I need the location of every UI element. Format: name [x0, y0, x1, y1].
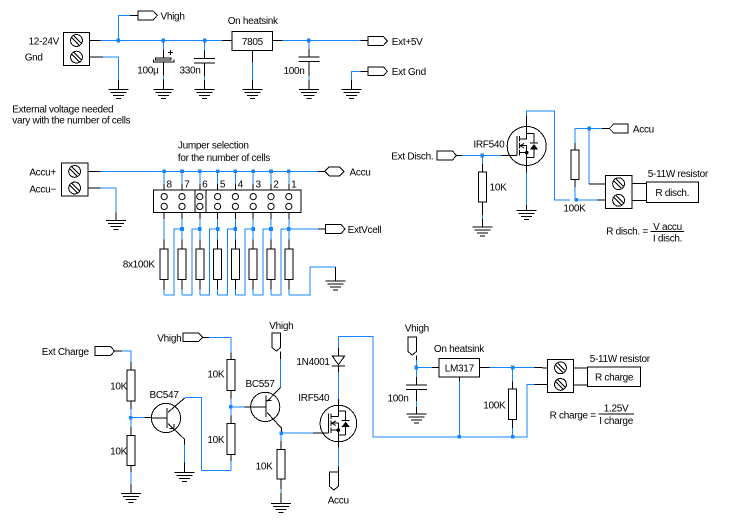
wire C2 top lead	[204, 41, 206, 59]
wire R2d bottom lead	[574, 179, 576, 199]
wire IC2 adj lead	[458, 377, 460, 437]
ground under R7c	[271, 504, 291, 513]
label pin 5	[220, 179, 226, 190]
flag ExtGnd	[368, 67, 387, 76]
node BC557 base	[229, 405, 233, 409]
svg-text:External voltage needed: External voltage needed	[12, 104, 113, 115]
wire R2 top lead	[270, 229, 272, 249]
label 100u	[137, 66, 159, 77]
wire X2 pin2	[88, 188, 116, 220]
svg-text:12-24V: 12-24V	[29, 37, 60, 48]
wire IC1 input stub	[222, 40, 232, 42]
terminal block X3 discharge	[605, 176, 631, 209]
formula R charge	[550, 404, 634, 428]
wire R2d top lead	[574, 129, 576, 150]
node jumper col 8 on Accu rail	[162, 170, 166, 174]
wire R1 top lead	[288, 229, 290, 249]
resistor 100K col 3	[249, 249, 257, 280]
resistor 100K col 1	[285, 249, 293, 280]
jumper pin circles col 3	[250, 194, 256, 210]
resistor 100K col 2	[267, 249, 275, 280]
regulator IC1 7805	[232, 31, 273, 50]
wire X4 to Rcharge pin2	[574, 384, 588, 386]
node Vhigh branch	[117, 39, 121, 43]
svg-text:100n: 100n	[283, 66, 304, 77]
wire R7 top lead	[181, 229, 183, 249]
label 5-11W resistor discharge	[648, 169, 709, 180]
svg-text:I charge: I charge	[599, 416, 633, 427]
svg-text:1N4001: 1N4001	[296, 357, 330, 368]
wire R8 bottom lead	[163, 280, 165, 295]
wire R1 to ground	[289, 267, 336, 295]
wire R3c mid top	[130, 401, 132, 418]
node R-gate tap	[481, 154, 485, 158]
svg-text:10K: 10K	[207, 435, 225, 446]
jumper pin circles col 7	[179, 194, 185, 210]
label 8x100K	[123, 259, 156, 270]
node divider col 2	[269, 227, 273, 231]
wire R8c bottom lead	[512, 420, 514, 437]
flag Vhigh top	[138, 11, 157, 20]
note external voltage line1	[12, 104, 113, 115]
flag Vhigh charge1	[183, 333, 202, 342]
formula R disch	[606, 222, 684, 245]
wire R6 to col 5 node	[200, 229, 218, 295]
svg-text:5-11W resistor: 5-11W resistor	[648, 169, 709, 180]
transistor Q2 BC547	[151, 398, 185, 439]
svg-text:5: 5	[220, 179, 226, 190]
svg-text:Vhigh: Vhigh	[161, 11, 185, 22]
wire IC2 out stub	[480, 367, 490, 369]
svg-text:10K: 10K	[490, 183, 508, 194]
ground under Q2	[174, 473, 194, 482]
ground divider chain	[326, 281, 346, 290]
label Accu-	[29, 184, 56, 195]
wire jumper col 7 bottom stub	[181, 213, 183, 230]
ground under Q1	[517, 210, 537, 219]
wire C4 bottom lead	[415, 389, 417, 414]
wire D1 cathode to Q4 drain	[337, 366, 339, 405]
wire R6 bottom lead	[199, 280, 201, 295]
ground under R4c	[121, 494, 141, 503]
wire jumper col 3 bottom stub	[252, 213, 254, 230]
wire C3 bottom lead	[308, 62, 310, 90]
svg-text:On heatsink: On heatsink	[434, 344, 485, 355]
svg-text:2: 2	[273, 179, 279, 190]
svg-text:100µ: 100µ	[137, 66, 159, 77]
wire C2 bottom lead	[204, 63, 206, 90]
wire R1d top lead	[481, 156, 483, 173]
wire Q1 drain lead	[527, 111, 570, 200]
svg-text:Ext Charge: Ext Charge	[42, 347, 90, 358]
svg-text:Accu: Accu	[350, 167, 371, 178]
wire R4 bottom lead	[234, 280, 236, 295]
wire jumper col 8 top stub	[163, 171, 165, 190]
svg-text:10K: 10K	[256, 462, 274, 473]
ground under R1d	[472, 227, 492, 236]
svg-text:100K: 100K	[563, 203, 586, 214]
capacitor C2 330n	[194, 59, 215, 64]
regulator IC2 LM317	[439, 358, 479, 377]
node divider col 3	[251, 227, 255, 231]
wire R5c bottom	[230, 391, 232, 407]
svg-text:Vhigh: Vhigh	[405, 323, 429, 334]
node divider col 4	[234, 227, 238, 231]
svg-text:Accu−: Accu−	[29, 184, 56, 195]
wire R1d bottom lead	[481, 202, 483, 227]
wire gate rail Q1	[456, 155, 507, 157]
label Vhigh charge1	[157, 333, 181, 344]
label 100K discharge	[563, 203, 586, 214]
node R8c bottom junction	[511, 435, 515, 439]
label ExtVcell	[348, 225, 382, 236]
node divider col 5	[216, 227, 220, 231]
wire jumper col 1 bottom stub	[288, 213, 290, 230]
flag Accu discharge	[609, 124, 628, 133]
wire Vhigh2 to Q3 emitter	[280, 351, 282, 387]
ground under X2	[106, 221, 126, 230]
transistor Q1 IRF540	[507, 127, 546, 166]
svg-text:100n: 100n	[387, 394, 408, 405]
ground under C4	[406, 414, 426, 423]
wire R2 bottom lead	[270, 280, 272, 295]
wire R1 bottom lead	[288, 280, 290, 295]
ground under ExtGnd	[342, 90, 362, 99]
node divider col 6	[198, 227, 202, 231]
svg-text:Ext+5V: Ext+5V	[392, 37, 423, 48]
svg-text:ExtVcell: ExtVcell	[348, 225, 382, 236]
label pin 8	[167, 179, 173, 190]
label Ext Gnd	[392, 67, 426, 78]
svg-text:6: 6	[202, 179, 208, 190]
jumper block housing 5-1	[206, 190, 301, 213]
wire Accu rail stub	[318, 170, 325, 172]
label pin 4	[238, 179, 244, 190]
wire R8c top lead	[512, 368, 514, 390]
wire jumper col 8 bottom stub	[163, 213, 165, 230]
svg-text:V accu: V accu	[653, 222, 682, 233]
node jumper col 1 on Accu rail	[287, 170, 291, 174]
svg-text:Jumper selection: Jumper selection	[178, 141, 249, 152]
svg-text:Accu+: Accu+	[29, 168, 56, 179]
wire jumper col 2 top stub	[270, 171, 272, 190]
wire gate rail Q4	[281, 432, 320, 434]
label 10K discharge	[490, 183, 508, 194]
note jumper selection line1	[178, 141, 249, 152]
wire jumper col 6 top stub	[199, 171, 201, 190]
label BC557	[246, 379, 276, 390]
label pin 1	[291, 179, 297, 190]
diode D1 1N4001	[332, 356, 345, 366]
jumper pin circles col 2	[268, 194, 274, 210]
wire jumper col 5 bottom stub	[217, 213, 219, 230]
label pin 3	[256, 179, 262, 190]
wire R6 top lead	[199, 229, 201, 249]
svg-text:7: 7	[184, 179, 190, 190]
wire +V rail	[100, 40, 360, 42]
svg-text:5-11W resistor: 5-11W resistor	[590, 354, 651, 365]
svg-text:IRF540: IRF540	[473, 140, 505, 151]
svg-text:8x100K: 8x100K	[123, 259, 156, 270]
wire R3 to col 2 node	[253, 229, 271, 295]
wire D1 anode lead	[337, 337, 339, 357]
flag Accu mid	[325, 167, 344, 176]
node adj junction	[458, 435, 462, 439]
svg-text:vary with the number of cells: vary with the number of cells	[12, 115, 130, 126]
svg-text:1.25V: 1.25V	[604, 404, 629, 415]
wire adj rail to X4	[459, 385, 547, 437]
svg-text:10K: 10K	[110, 382, 128, 393]
wire R4 top lead	[234, 229, 236, 249]
wire Vhigh3 to IC2	[416, 367, 439, 369]
node Vhigh3	[415, 366, 419, 370]
svg-text:1: 1	[291, 179, 297, 190]
wire R7c bottom lead	[280, 479, 282, 504]
wire drain node to X3 pin2	[576, 199, 605, 201]
ground under C1	[153, 90, 173, 99]
svg-text:Vhigh: Vhigh	[269, 321, 293, 332]
ground under IC1	[242, 90, 262, 99]
svg-text:330n: 330n	[179, 66, 200, 77]
resistor 100K charge	[509, 389, 517, 419]
svg-text:Ext Gnd: Ext Gnd	[392, 67, 426, 78]
label Accu discharge	[633, 124, 654, 135]
wire Accu rail	[100, 170, 318, 172]
label LM317	[445, 364, 475, 375]
wire base to Q3	[231, 406, 251, 408]
wire jumper col 2 bottom stub	[270, 213, 272, 230]
resistor 10K pulldown	[277, 450, 285, 479]
node Q1 drain junction	[574, 198, 578, 202]
resistor 100K col 8	[160, 249, 168, 280]
node jumper col 4 on Accu rail	[234, 170, 238, 174]
label 10K bias lower	[207, 435, 225, 446]
svg-text:Accu: Accu	[328, 495, 349, 506]
wire Q1 source lead	[526, 166, 528, 211]
wire Q2 emitter lead	[183, 439, 185, 473]
label On heatsink IC2	[434, 344, 485, 355]
node divider col 1	[287, 227, 291, 231]
wire jumper col 5 top stub	[217, 171, 219, 190]
svg-text:8: 8	[167, 179, 173, 190]
wire jumper col 6 bottom stub	[199, 213, 201, 230]
wire IC1 gnd pin	[251, 51, 253, 90]
node jumper col 3 on Accu rail	[251, 170, 255, 174]
node C1 tap	[162, 39, 166, 43]
capacitor C4 100n	[406, 385, 427, 390]
svg-text:R charge =: R charge =	[550, 411, 597, 422]
wire R4c mid bottom	[130, 418, 132, 436]
svg-text:Accu: Accu	[633, 124, 654, 135]
resistor 100K col 4	[231, 249, 239, 280]
svg-text:7805: 7805	[242, 37, 264, 48]
wire X1 pin1 stub	[90, 40, 101, 42]
label 1N4001	[296, 357, 330, 368]
label 5-11W resistor charge	[590, 354, 651, 365]
wire jumper col 3 top stub	[252, 171, 254, 190]
svg-text:Vhigh: Vhigh	[157, 333, 181, 344]
jumper pin circles col 5	[215, 194, 221, 210]
label R disch box	[655, 188, 689, 199]
label pin 6	[202, 179, 208, 190]
wire Accu to X3 pin1	[589, 129, 605, 184]
label Ext Charge	[42, 347, 90, 358]
resistor 10K charge upper	[127, 370, 135, 401]
label 100K charge	[483, 400, 506, 411]
wire Vhigh1 to R5c	[202, 337, 231, 359]
wire R7c top lead	[280, 433, 282, 450]
wire R8 to col 7 node	[164, 229, 182, 295]
node IC2 out	[511, 366, 515, 370]
wire IC2 out rail	[490, 367, 548, 369]
wire R6c bottom lead	[230, 454, 232, 470]
flag Accu charge	[330, 472, 339, 490]
flag Vhigh charge3	[408, 337, 417, 355]
note external voltage line2	[12, 115, 130, 126]
jumper pin circles col 1	[286, 194, 292, 210]
jumper block shunt col 6	[195, 190, 206, 213]
label 100n top	[283, 66, 304, 77]
transistor Q3 BC557	[251, 387, 282, 428]
wire R5 top lead	[217, 229, 219, 249]
resistor 10K discharge gate	[478, 172, 486, 202]
ground under C3	[299, 90, 319, 99]
svg-text:for the number of cells: for the number of cells	[178, 153, 270, 164]
label 10K pulldown	[256, 462, 274, 473]
svg-text:3: 3	[256, 179, 262, 190]
wire C1 top lead	[162, 41, 164, 58]
wire Q4 source lead	[337, 442, 339, 472]
wire C3 top lead	[308, 41, 310, 58]
terminal block X4 charge	[547, 360, 573, 393]
label On heatsink IC1	[228, 16, 279, 27]
label BC547	[150, 390, 180, 401]
wire X1 pin2 stub	[90, 56, 103, 58]
wire Ext+5V stub	[360, 40, 368, 42]
capacitor C1 100u	[154, 50, 174, 62]
ground under C2	[195, 90, 215, 99]
label 10K charge lower	[110, 447, 128, 458]
label Ext+5V	[392, 37, 423, 48]
wire gnd from X1	[103, 57, 118, 90]
wire X3 to Rdisch pin1	[632, 183, 647, 185]
svg-text:4: 4	[238, 179, 244, 190]
wire Accu rail discharge	[575, 128, 609, 130]
wire base to Q2	[131, 417, 152, 419]
label 10K bias upper	[207, 369, 225, 380]
svg-text:Ext Disch.: Ext Disch.	[391, 151, 433, 162]
label Gnd	[25, 52, 43, 63]
label Vhigh charge2	[269, 321, 293, 332]
wire IC1 output stub	[273, 40, 283, 42]
svg-text:Gnd: Gnd	[25, 52, 43, 63]
wire ExtGnd	[352, 71, 369, 89]
wire R7 to col 6 node	[182, 229, 200, 295]
wire jumper col 4 bottom stub	[234, 213, 236, 230]
resistor 100K col 5	[214, 249, 222, 280]
svg-text:BC547: BC547	[150, 390, 180, 401]
wire D1 anode loop	[338, 337, 459, 437]
wire Q3 collector lead	[281, 428, 283, 433]
wire Q2 collector to R6c	[185, 398, 231, 471]
wire from ExtCharge	[115, 351, 131, 370]
label 12-24V	[29, 37, 60, 48]
label IRF540 Q4	[298, 393, 330, 404]
node C3 tap	[307, 39, 311, 43]
wire R3 top lead	[252, 229, 254, 249]
label Vhigh charge3	[405, 323, 429, 334]
label Accu mid	[350, 167, 371, 178]
capacitor C3 100n	[298, 57, 319, 62]
jumper block housing 8-7	[153, 190, 195, 213]
label Accu+	[29, 168, 56, 179]
node BC547 base	[129, 416, 133, 420]
flag Vhigh charge2	[272, 333, 281, 351]
wire Vhigh3 lead	[415, 355, 417, 367]
node divider col 7	[180, 227, 184, 231]
resistor R charge box	[588, 367, 641, 387]
wire R8 top lead	[163, 229, 165, 249]
flag Ext+5V	[368, 37, 387, 46]
svg-text:LM317: LM317	[445, 364, 475, 375]
wire jumper col 1 top stub	[288, 171, 290, 190]
jumper pin circles col 4	[232, 194, 238, 210]
wire X3 to Rdisch pin2	[632, 199, 647, 201]
svg-text:100K: 100K	[483, 400, 506, 411]
label pin 2	[273, 179, 279, 190]
label 7805	[242, 37, 264, 48]
note jumper selection line2	[178, 153, 270, 164]
wire R5 bottom lead	[217, 280, 219, 295]
svg-text:I disch.: I disch.	[653, 234, 682, 245]
node jumper col 7 on Accu rail	[180, 170, 184, 174]
label 10K charge upper	[110, 382, 128, 393]
wire jumper col 7 top stub	[181, 171, 183, 190]
wire X2 pin1 stub	[88, 170, 101, 172]
label IRF540 Q1	[473, 140, 505, 151]
wire R7 bottom lead	[181, 280, 183, 295]
label 100n charge	[387, 394, 408, 405]
label pin 7	[184, 179, 190, 190]
flag ExtVcell	[326, 225, 345, 234]
wire R4c bottom lead	[130, 466, 132, 494]
svg-text:R disch.: R disch.	[655, 188, 689, 199]
resistor 10K bias upper	[227, 360, 235, 391]
label R charge box	[595, 373, 634, 384]
terminal block X1 12-24V input	[63, 32, 89, 65]
wire X4 to Rcharge pin1	[574, 367, 588, 369]
wire ExtVcell rail	[289, 228, 326, 230]
svg-text:On heatsink: On heatsink	[228, 16, 279, 27]
node Accu branch	[587, 127, 591, 131]
resistor 100K col 7	[178, 249, 186, 280]
wire R2 to col 1 node	[271, 229, 289, 295]
svg-text:R disch. =: R disch. =	[606, 227, 648, 238]
resistor R disch box	[646, 182, 698, 202]
resistor 10K charge lower	[127, 435, 135, 465]
flag ExtCharge	[95, 347, 114, 356]
node jumper col 5 on Accu rail	[216, 170, 220, 174]
node C2 tap	[203, 39, 207, 43]
wire R5 to col 4 node	[218, 229, 236, 295]
label Vhigh top	[161, 11, 185, 22]
svg-text:IRF540: IRF540	[298, 393, 330, 404]
label 330n	[179, 66, 200, 77]
resistor 10K bias lower	[227, 423, 235, 454]
resistor 100K discharge	[571, 150, 579, 180]
wire R4 to col 3 node	[235, 229, 253, 295]
node jumper col 2 on Accu rail	[269, 170, 273, 174]
